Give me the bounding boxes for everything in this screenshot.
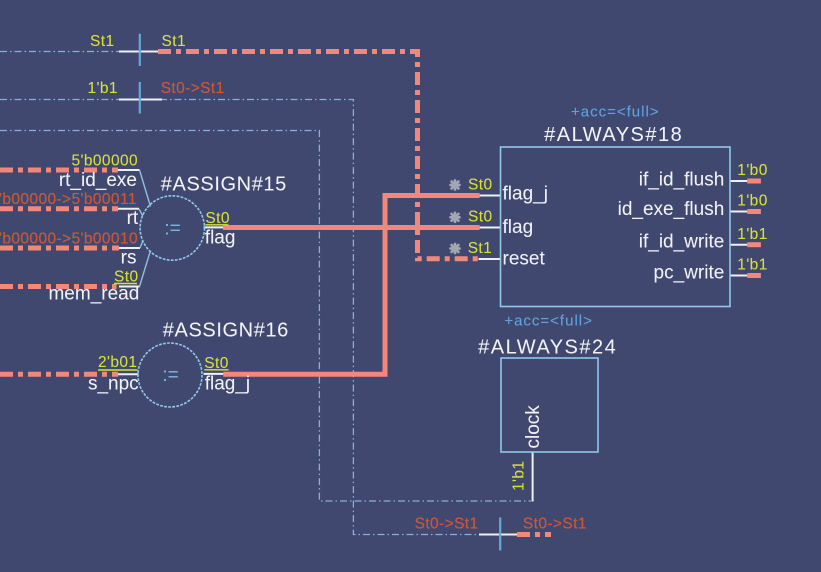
svg-text:+acc=<full>: +acc=<full> [571,103,660,120]
svg-text:2'b01: 2'b01 [98,354,137,371]
svg-text:St1: St1 [90,33,114,50]
svg-text:'b00000->5'b00010: 'b00000->5'b00010 [0,231,138,248]
svg-text:St0: St0 [204,355,228,372]
svg-text:if_id_flush: if_id_flush [639,170,725,191]
svg-text:flag_j: flag_j [205,373,250,394]
svg-text:s_npc: s_npc [88,373,139,394]
svg-text:flag: flag [503,217,534,238]
svg-text:flag: flag [205,227,236,248]
svg-text::=: := [162,365,178,386]
svg-text:rs: rs [121,247,137,268]
svg-text:St1: St1 [162,33,186,50]
svg-text:flag_j: flag_j [503,184,548,205]
svg-text:#ASSIGN#15: #ASSIGN#15 [161,173,287,195]
svg-text:St0: St0 [468,177,492,194]
svg-text:1'b1: 1'b1 [511,461,528,491]
svg-text:id_exe_flush: id_exe_flush [618,199,725,220]
svg-text:'b00000->5'b00011: 'b00000->5'b00011 [0,191,137,208]
svg-text:1'b1: 1'b1 [88,80,118,97]
svg-text:pc_write: pc_write [654,263,725,284]
svg-text:#ALWAYS#24: #ALWAYS#24 [478,337,617,359]
svg-text:+acc=<full>: +acc=<full> [504,313,593,330]
svg-text:1'b0: 1'b0 [737,193,767,210]
svg-text:if_id_write: if_id_write [639,232,725,253]
svg-text:St0->St1: St0->St1 [415,516,479,533]
svg-text:reset: reset [503,249,546,270]
svg-text:1'b1: 1'b1 [737,257,767,274]
svg-text::=: := [164,219,180,240]
svg-text:rt_id_exe: rt_id_exe [59,170,137,191]
svg-text:1'b1: 1'b1 [737,226,767,243]
svg-text:St1: St1 [468,240,492,257]
svg-text:St0->St1: St0->St1 [161,80,225,97]
svg-text:St0: St0 [468,208,492,225]
svg-text:5'b00000: 5'b00000 [72,152,139,169]
svg-text:1'b0: 1'b0 [737,162,767,179]
svg-text:#ASSIGN#16: #ASSIGN#16 [163,319,289,341]
svg-text:rt: rt [127,208,139,229]
svg-text:#ALWAYS#18: #ALWAYS#18 [544,124,683,146]
svg-text:St0->St1: St0->St1 [523,516,587,533]
svg-text:St0: St0 [205,210,229,227]
svg-text:clock: clock [523,405,544,449]
svg-text:mem_read: mem_read [48,284,139,305]
